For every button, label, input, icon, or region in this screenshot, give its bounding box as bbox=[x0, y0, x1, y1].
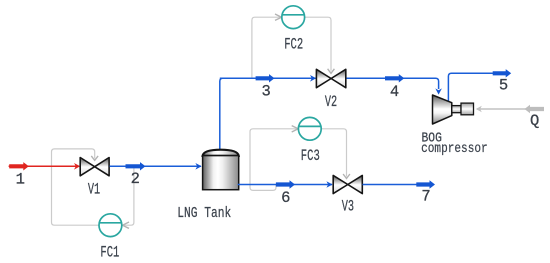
stream 2 bold arrow marker bbox=[126, 162, 146, 170]
svg-text:compressor: compressor bbox=[421, 141, 488, 157]
stream 1 arrowhead into V1 bbox=[74, 163, 80, 170]
stream 6 arrowhead into V3 bbox=[326, 181, 332, 188]
stream 4 bold arrow marker bbox=[385, 74, 404, 82]
svg-text:FC3: FC3 bbox=[301, 147, 320, 165]
LNG tank vapour riser wire (tank top up to stream 3) bbox=[220, 78, 225, 155]
arrowhead into V1 bbox=[91, 156, 98, 161]
svg-text:FC1: FC1 bbox=[100, 244, 119, 262]
signal wire FC1 output (FC1 left, up, right to V1 actuator) bbox=[52, 149, 99, 225]
arrowhead into FC3 bbox=[292, 126, 299, 132]
stream 7 wire (V3 outlet) bbox=[363, 184, 429, 186]
valve V3 bbox=[333, 175, 362, 193]
arrowhead into V2 bbox=[328, 69, 335, 74]
stream 5 bold arrow marker bbox=[493, 69, 512, 77]
controller FC3 bbox=[298, 117, 321, 140]
signal wire FC2 input (tap on stream 3 up to FC2) bbox=[252, 17, 280, 78]
arrowhead into V3 bbox=[343, 174, 350, 179]
svg-text:7: 7 bbox=[421, 188, 430, 206]
stream 4 wire (V2 to compressor) bbox=[347, 78, 439, 89]
stream 2 wire (V1 to tank) bbox=[110, 165, 201, 167]
stream Q arrowhead into compressor box bbox=[476, 106, 482, 112]
stream 6 wire (tank to V3) bbox=[238, 184, 332, 186]
stream 5 wire (compressor outlet up and right) bbox=[448, 73, 509, 101]
svg-text:V3: V3 bbox=[342, 198, 354, 216]
svg-text:2: 2 bbox=[131, 170, 140, 188]
svg-text:LNG Tank: LNG Tank bbox=[177, 205, 231, 222]
svg-text:6: 6 bbox=[281, 189, 290, 207]
stream 1 bold arrow marker bbox=[9, 162, 29, 170]
stream Q bold arrow marker (leftwards) bbox=[525, 105, 545, 113]
valve V1 bbox=[80, 158, 109, 176]
arrowhead into FC2 bbox=[275, 14, 282, 20]
svg-text:FC2: FC2 bbox=[284, 35, 303, 53]
svg-text:Q: Q bbox=[530, 112, 539, 130]
arrowhead into FC1 bbox=[123, 222, 130, 228]
svg-text:3: 3 bbox=[262, 82, 271, 100]
valve V2 bbox=[316, 69, 345, 87]
signal wire FC3 output (FC3 right, down to V3 actuator) bbox=[322, 129, 347, 177]
signal wire FC3 input (tap on stream 6 to FC3) bbox=[250, 129, 297, 191]
stream Q wire (energy into compressor, gray) bbox=[477, 108, 543, 110]
controller FC2 bbox=[282, 6, 305, 29]
signal wire FC2 output (FC2 right, down to V2 actuator) bbox=[305, 17, 331, 71]
BOG compressor bbox=[433, 95, 474, 124]
stream 2 arrowhead into tank bbox=[195, 163, 201, 170]
signal wire FC1 input (tap on stream 2 down to FC1) bbox=[124, 166, 134, 225]
stream 3 bold arrow marker bbox=[256, 74, 275, 82]
stream 3 arrowhead into V2 bbox=[310, 75, 316, 82]
stream 4 arrowhead into compressor bbox=[435, 88, 442, 94]
stream 1 wire (red feed) bbox=[9, 165, 79, 167]
svg-text:V2: V2 bbox=[325, 93, 337, 111]
svg-text:1: 1 bbox=[16, 170, 25, 188]
svg-text:5: 5 bbox=[499, 77, 508, 95]
controller FC1 bbox=[99, 214, 122, 237]
stream 6 bold arrow marker bbox=[276, 180, 295, 188]
stream 3 wire (riser to V2) bbox=[220, 77, 316, 79]
svg-text:4: 4 bbox=[390, 83, 399, 101]
stream 7 bold arrow marker bbox=[416, 180, 435, 188]
LNG tank vessel bbox=[203, 150, 239, 190]
svg-text:V1: V1 bbox=[88, 181, 100, 199]
